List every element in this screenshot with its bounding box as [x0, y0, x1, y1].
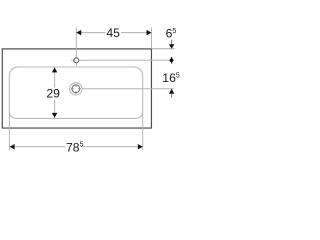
extension line 45 dim right: [150, 28, 152, 49]
dim 45 line: [76, 32, 151, 34]
svg-text:65: 65: [166, 27, 177, 41]
tap hole symbol: [71, 55, 82, 66]
top edge extension to right chain: [152, 48, 175, 50]
extension line for 78.5 right: [142, 112, 144, 151]
extension line tap-hole vertical (45 dim left): [75, 28, 77, 59]
drain leader line: [82, 88, 174, 90]
extension line for 78.5 left (inner rim left edge extended down): [8, 112, 10, 151]
svg-text:45: 45: [106, 26, 120, 40]
basin inner rim (rounded): [9, 67, 142, 118]
svg-text:29: 29: [46, 87, 60, 101]
right chain: 16.5 up arrow with tail: [169, 89, 175, 94]
svg-text:785: 785: [66, 140, 84, 154]
dim 78.5 arrows: [10, 144, 15, 150]
dim 45 arrows: [76, 30, 81, 35]
dim 29 line vertical: [54, 68, 56, 118]
svg-text:165: 165: [162, 71, 180, 85]
tap hole leader line: [82, 59, 174, 61]
right chain: 6.5 down arrow with tail: [171, 40, 173, 45]
washbasin outer ceramic outline: [2, 49, 151, 128]
right chain: shared dot on tap leader: [170, 58, 174, 62]
dim 78.5 line: [9, 146, 142, 148]
dim 29 arrows: [52, 68, 58, 73]
drain symbol: [70, 83, 82, 95]
